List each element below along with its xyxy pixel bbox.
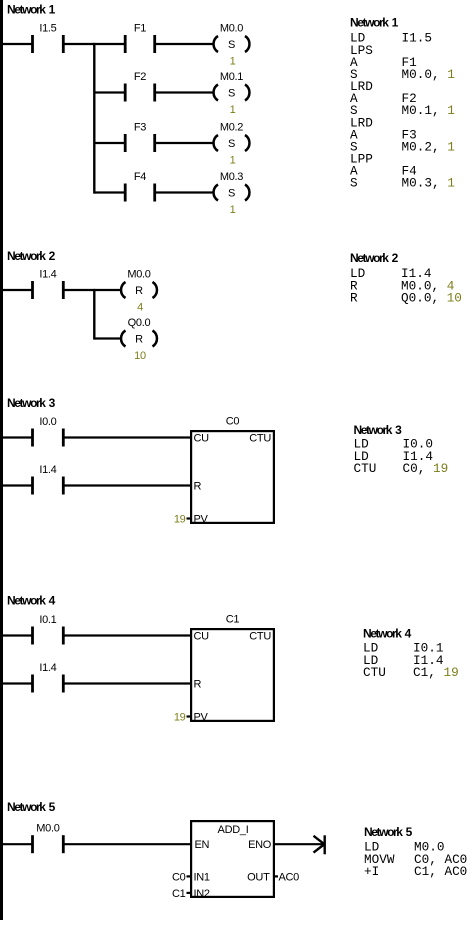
wire xyxy=(2,634,33,636)
svg-text:CU: CU xyxy=(194,631,210,643)
wire xyxy=(2,682,33,684)
svg-text:C1, AC0: C1, AC0 xyxy=(414,864,467,879)
branch wire xyxy=(93,43,95,194)
svg-text:1: 1 xyxy=(230,155,236,167)
svg-text:Network 1: Network 1 xyxy=(7,2,56,16)
svg-text:F3: F3 xyxy=(134,122,146,134)
svg-text:CU: CU xyxy=(194,433,210,445)
coil M0.2 set xyxy=(214,122,250,167)
contact I0.1 xyxy=(33,614,64,645)
svg-text:+I: +I xyxy=(364,864,379,879)
wire xyxy=(155,91,215,93)
svg-text:M0.2, 1: M0.2, 1 xyxy=(402,139,455,154)
svg-text:ENO: ENO xyxy=(248,839,272,851)
svg-text:C1: C1 xyxy=(226,614,240,626)
svg-text:M0.0, 1: M0.0, 1 xyxy=(402,67,455,82)
svg-text:EN: EN xyxy=(195,839,210,851)
svg-text:Network 3: Network 3 xyxy=(7,396,56,410)
svg-text:Network 3: Network 3 xyxy=(354,423,403,437)
svg-text:4: 4 xyxy=(137,302,143,314)
svg-text:CTU: CTU xyxy=(249,433,271,445)
ADD_I box U1 xyxy=(191,821,274,900)
svg-text:19: 19 xyxy=(174,514,186,526)
svg-text:I1.4: I1.4 xyxy=(39,662,56,674)
svg-text:Network 5: Network 5 xyxy=(7,800,56,814)
wire xyxy=(63,843,192,845)
wire xyxy=(155,142,215,144)
wire xyxy=(94,142,125,144)
svg-text:Network 1: Network 1 xyxy=(350,15,399,29)
left power rail xyxy=(0,0,3,920)
wire xyxy=(2,289,33,291)
svg-text:M0.0: M0.0 xyxy=(127,269,150,281)
svg-text:F2: F2 xyxy=(134,71,146,83)
contact I1.4 (net2) xyxy=(33,269,64,300)
svg-text:1: 1 xyxy=(230,104,236,116)
svg-text:ADD_I: ADD_I xyxy=(218,824,249,836)
continuation arrow xyxy=(314,835,325,854)
svg-text:I1.5: I1.5 xyxy=(402,31,432,46)
coil Q0.0 reset xyxy=(121,317,157,362)
contact I0.0 xyxy=(33,416,64,447)
svg-text:M0.0: M0.0 xyxy=(36,823,59,835)
svg-text:R: R xyxy=(135,285,143,297)
svg-text:S: S xyxy=(228,39,235,51)
input C1 to IN2 xyxy=(172,888,192,900)
wire xyxy=(155,43,215,45)
svg-text:OUT: OUT xyxy=(247,871,270,883)
svg-text:S: S xyxy=(228,138,235,150)
wire xyxy=(63,634,192,636)
svg-text:1: 1 xyxy=(230,56,236,68)
wire xyxy=(275,843,325,845)
svg-text:R: R xyxy=(194,679,202,691)
wire xyxy=(94,337,122,339)
svg-text:AC0: AC0 xyxy=(279,871,300,883)
svg-text:F4: F4 xyxy=(134,171,146,183)
coil M0.0 reset xyxy=(121,269,157,314)
input C0 to IN1 xyxy=(172,871,192,883)
PV preset 19 xyxy=(174,712,192,724)
svg-text:S: S xyxy=(350,176,358,191)
wire xyxy=(94,191,125,193)
coil M0.1 set xyxy=(214,71,250,116)
svg-text:C1: C1 xyxy=(172,888,186,900)
wire xyxy=(63,43,125,45)
svg-text:R: R xyxy=(135,334,143,346)
svg-text:C0: C0 xyxy=(226,416,240,428)
contact F3 xyxy=(125,122,155,153)
svg-text:M0.0: M0.0 xyxy=(220,23,243,35)
svg-text:CTU: CTU xyxy=(363,665,386,680)
contact M0.0 (net5) xyxy=(33,823,64,854)
svg-text:Network 5: Network 5 xyxy=(364,825,413,839)
wire xyxy=(63,484,192,486)
contact F1 xyxy=(125,23,155,54)
svg-text:Network 4: Network 4 xyxy=(7,593,56,607)
wire xyxy=(2,484,33,486)
svg-text:Network 2: Network 2 xyxy=(7,249,56,263)
svg-text:C1, 19: C1, 19 xyxy=(413,665,459,680)
wire xyxy=(63,289,122,291)
svg-text:M0.3: M0.3 xyxy=(220,171,243,183)
wire xyxy=(2,43,33,45)
svg-text:10: 10 xyxy=(134,350,146,362)
svg-text:PV: PV xyxy=(194,514,209,526)
wire xyxy=(94,91,125,93)
wire xyxy=(2,843,33,845)
svg-text:I0.0: I0.0 xyxy=(39,416,56,428)
wire xyxy=(2,436,33,438)
svg-text:I1.4: I1.4 xyxy=(39,269,56,281)
svg-text:C0: C0 xyxy=(172,871,186,883)
contact I1.4 (net4) xyxy=(33,662,64,693)
wire xyxy=(155,191,215,193)
wire xyxy=(63,682,192,684)
svg-text:I1.4: I1.4 xyxy=(39,464,56,476)
svg-text:M0.2: M0.2 xyxy=(220,122,243,134)
svg-text:PV: PV xyxy=(194,712,209,724)
svg-text:R: R xyxy=(350,291,358,306)
svg-text:S: S xyxy=(228,188,235,200)
svg-text:M0.1, 1: M0.1, 1 xyxy=(402,103,455,118)
svg-text:IN1: IN1 xyxy=(194,871,210,883)
svg-text:Network 4: Network 4 xyxy=(363,626,412,640)
counter C0 xyxy=(191,416,274,526)
svg-text:Q0.0, 10: Q0.0, 10 xyxy=(401,291,462,306)
svg-text:R: R xyxy=(194,481,202,493)
svg-text:C0, 19: C0, 19 xyxy=(403,461,449,476)
svg-text:19: 19 xyxy=(174,712,186,724)
contact I1.5 xyxy=(33,23,64,54)
svg-text:I0.1: I0.1 xyxy=(39,614,56,626)
svg-text:S: S xyxy=(228,88,235,100)
svg-text:CTU: CTU xyxy=(249,631,271,643)
counter C1 xyxy=(191,614,274,724)
branch wire xyxy=(93,289,95,340)
svg-text:IN2: IN2 xyxy=(194,888,210,900)
coil M0.0 set xyxy=(214,23,250,68)
svg-text:I1.5: I1.5 xyxy=(39,23,56,35)
svg-text:CTU: CTU xyxy=(354,461,377,476)
svg-text:Network 2: Network 2 xyxy=(350,251,399,265)
contact F4 xyxy=(125,171,155,202)
output OUT to AC0 xyxy=(275,871,300,883)
svg-text:M0.3, 1: M0.3, 1 xyxy=(402,176,455,191)
coil M0.3 set xyxy=(214,171,250,216)
PV preset 19 xyxy=(174,514,192,526)
svg-text:M0.1: M0.1 xyxy=(220,71,243,83)
contact F2 xyxy=(125,71,155,102)
svg-text:F1: F1 xyxy=(134,23,146,35)
svg-text:Q0.0: Q0.0 xyxy=(128,317,151,329)
svg-text:1: 1 xyxy=(230,204,236,216)
contact I1.4 (net3) xyxy=(33,464,64,495)
wire xyxy=(63,436,192,438)
